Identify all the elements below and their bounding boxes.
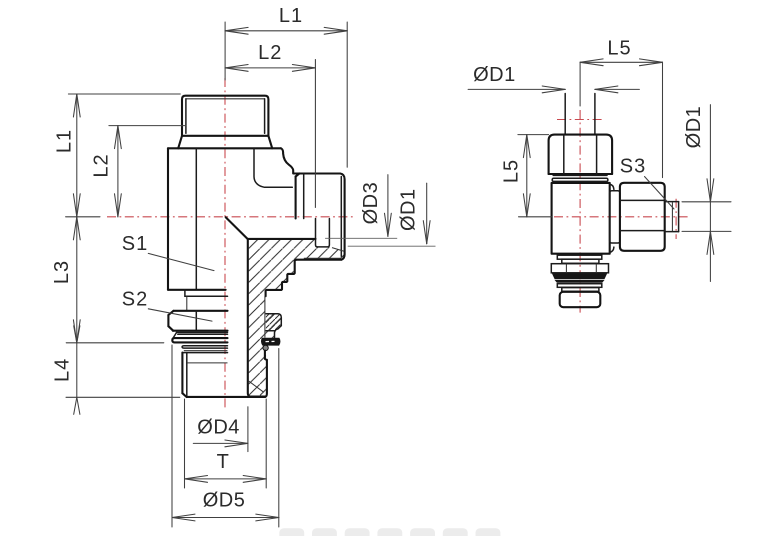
svg-text:L1: L1: [279, 5, 303, 27]
svg-text:ØD4: ØD4: [197, 417, 240, 439]
svg-text:S2: S2: [122, 289, 148, 311]
svg-text:L5: L5: [501, 159, 523, 183]
svg-text:L5: L5: [607, 38, 631, 60]
svg-text:S3: S3: [620, 156, 646, 178]
svg-text:ØD1: ØD1: [473, 64, 516, 86]
svg-text:ØD3: ØD3: [360, 182, 382, 225]
svg-text:S1: S1: [122, 233, 148, 255]
svg-text:L1: L1: [54, 129, 76, 153]
svg-text:ØD1: ØD1: [683, 106, 705, 149]
svg-text:L2: L2: [258, 42, 282, 64]
svg-text:L2: L2: [91, 153, 113, 177]
svg-text:ØD5: ØD5: [203, 490, 246, 512]
svg-text:L3: L3: [51, 260, 73, 284]
svg-text:ØD1: ØD1: [398, 188, 420, 231]
svg-text:L4: L4: [52, 358, 74, 382]
svg-text:T: T: [217, 451, 229, 473]
